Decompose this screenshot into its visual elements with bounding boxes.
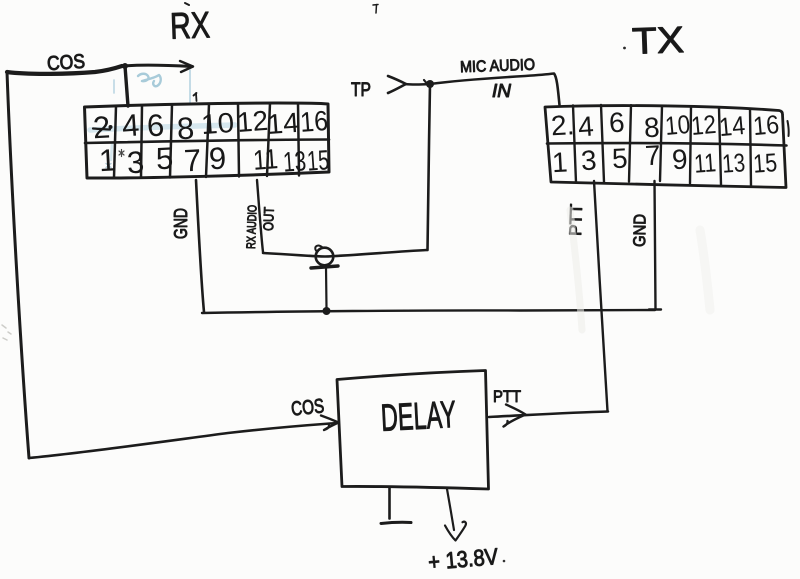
- connector J2 TX column dividers: [573, 106, 576, 183]
- tick GND end: [649, 308, 661, 310]
- wire COS horizontal top: [7, 66, 122, 74]
- wire TP to junction: [405, 83, 430, 86]
- connector J1 RX column dividers: [114, 106, 116, 178]
- connector J2 TX outer frame: [545, 106, 786, 188]
- svg-text:PTT: PTT: [493, 387, 521, 406]
- svg-text:15: 15: [752, 147, 778, 179]
- pin numbers TX top row: [550, 107, 780, 144]
- wire attenuator to GND bus: [325, 267, 328, 308]
- wire GND from TX connector to bus: [655, 181, 656, 309]
- svg-text:10: 10: [200, 107, 235, 140]
- wire COS arrow to RX: [123, 65, 192, 66]
- svg-text:11: 11: [252, 143, 279, 176]
- svg-text:COS: COS: [290, 395, 325, 420]
- svg-text:12: 12: [690, 109, 718, 141]
- arrowhead TP: [388, 76, 406, 93]
- svg-text:8: 8: [176, 111, 195, 147]
- box DELAY: [337, 371, 489, 490]
- node COS junction blob: [122, 63, 128, 69]
- svg-text:8: 8: [643, 112, 660, 144]
- wire RX AUDIO OUT from connector: [257, 180, 263, 252]
- connector J1 RX outer frame: [85, 103, 330, 178]
- wire PTT from DELAY to TX drop: [489, 412, 608, 418]
- wire PTT from TX connector down: [594, 181, 608, 411]
- node GND bus junction: [323, 307, 331, 315]
- tick on mic wire: [424, 80, 428, 85]
- pen dot left of TX: [623, 47, 626, 50]
- svg-text:MIC AUDIO: MIC AUDIO: [460, 57, 536, 77]
- svg-text:10: 10: [664, 109, 692, 141]
- arrowhead COS into DELAY: [321, 416, 339, 431]
- svg-text:2.: 2.: [550, 109, 575, 141]
- double stroke right edge: [788, 121, 789, 136]
- svg-text:GND: GND: [171, 208, 191, 239]
- wire COS bottom to DELAY: [29, 423, 337, 458]
- svg-text:11: 11: [693, 147, 717, 178]
- faint scan smudges: [570, 210, 582, 330]
- svg-text:OUT: OUT: [260, 206, 277, 231]
- svg-text:5: 5: [155, 140, 174, 176]
- wire RX audio horizontal to TP drop: [263, 250, 427, 257]
- small pen tick above RX connector: [194, 93, 197, 101]
- svg-text:4: 4: [577, 110, 595, 142]
- connector J1 RX middle line: [85, 140, 329, 144]
- attenuator symbol circle: [316, 248, 334, 266]
- svg-text:9: 9: [671, 144, 688, 176]
- strikethrough on pin 2: [93, 129, 110, 130]
- svg-text:5: 5: [611, 143, 628, 175]
- wire GND bus horizontal: [202, 310, 655, 313]
- svg-text:4: 4: [121, 107, 141, 143]
- svg-text:TP: TP: [351, 80, 371, 101]
- svg-text:12: 12: [236, 105, 269, 138]
- svg-text:14: 14: [266, 107, 300, 140]
- svg-text:GND: GND: [630, 214, 650, 247]
- svg-text:13: 13: [282, 145, 307, 178]
- faint marks left edge: [2, 325, 11, 340]
- svg-text:14: 14: [718, 110, 747, 142]
- label RX: [169, 3, 210, 47]
- faint blue tick: [113, 80, 115, 93]
- svg-text:IN: IN: [492, 81, 512, 101]
- svg-text:3: 3: [126, 144, 145, 180]
- wire MIC AUDIO to TX connector: [430, 74, 560, 106]
- svg-text:6: 6: [608, 107, 625, 139]
- svg-text:9: 9: [208, 140, 227, 176]
- arrowhead PTT: [504, 405, 526, 427]
- svg-text:RX AUDIO: RX AUDIO: [244, 204, 260, 249]
- svg-text:13: 13: [721, 147, 746, 179]
- faint blue streak through RX row: [90, 125, 235, 130]
- svg-text:16: 16: [752, 109, 781, 141]
- svg-text:1: 1: [551, 147, 568, 179]
- svg-text:6: 6: [146, 108, 165, 144]
- connector J2 TX middle line: [547, 143, 787, 145]
- faint blue vertical line under arrow tip: [189, 70, 191, 104]
- pin numbers TX bottom row: [551, 140, 778, 179]
- svg-text:2: 2: [92, 110, 111, 146]
- ground symbol below DELAY: [388, 488, 391, 519]
- pin numbers RX top row: [92, 105, 329, 147]
- svg-text:RX: RX: [169, 4, 210, 46]
- small pen tick top center: [373, 5, 378, 14]
- svg-text:1: 1: [98, 142, 117, 178]
- node junction TP/MIC: [426, 80, 434, 88]
- attenuator bar: [311, 266, 338, 268]
- wire COS left vertical: [7, 72, 29, 458]
- svg-text:16: 16: [299, 105, 329, 138]
- svg-text:15: 15: [306, 144, 330, 176]
- wire vertical from TP junction down: [428, 84, 431, 250]
- svg-text:DELAY: DELAY: [380, 394, 457, 440]
- power 13.8V arrow: [447, 489, 454, 530]
- pin numbers RX bottom row: [98, 140, 330, 180]
- svg-text:7: 7: [644, 140, 661, 172]
- wire GND from RX connector to bus: [196, 180, 204, 312]
- svg-text:TX: TX: [631, 19, 684, 62]
- svg-text:3: 3: [580, 145, 597, 177]
- svg-text:7: 7: [183, 142, 202, 178]
- dot after label: [503, 560, 506, 563]
- faint blue scribble os: [138, 74, 161, 86]
- wire COS vertical drop to RX connector: [125, 66, 128, 106]
- doodle marks near pin 1: [119, 150, 124, 157]
